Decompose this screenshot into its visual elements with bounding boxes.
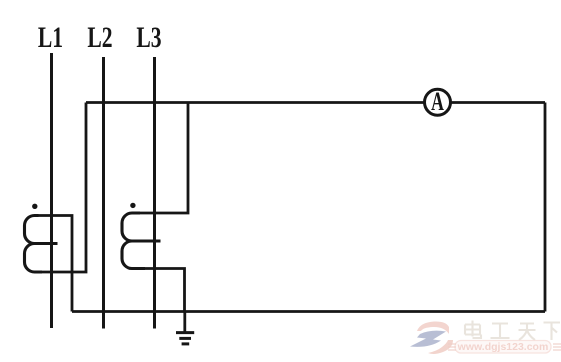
watermark char 下 <box>544 323 561 341</box>
watermark url box <box>455 341 551 354</box>
watermark logo slate Z <box>410 331 446 347</box>
ground bar 2 <box>179 337 191 340</box>
transformer T1 secondary coil (CT on L1) <box>25 216 58 273</box>
ground bar 1 <box>176 331 194 334</box>
wire L1 phase line <box>50 53 53 328</box>
ground stem <box>183 312 186 333</box>
svg-text:L1: L1 <box>38 21 63 54</box>
watermark char 天 <box>519 324 536 341</box>
wire L2 phase line <box>102 57 105 329</box>
watermark logo red swoosh top <box>417 321 449 334</box>
svg-text:L2: L2 <box>87 21 112 54</box>
wire CT1 bottom lead: cap right to x=86 then up to top bus <box>39 103 87 273</box>
wire CT2 bottom lead: cap right to x=184.5 then down to bottom bus <box>134 269 185 312</box>
ground bar 3 <box>182 342 190 345</box>
watermark hamburger right <box>553 344 561 350</box>
wire CT1 top lead: cap to x=72 then down to bottom bus <box>39 216 73 312</box>
wire L3 phase line <box>153 57 156 329</box>
ammeter A1 circle <box>425 89 451 115</box>
svg-text:www.dgjs123.com: www.dgjs123.com <box>457 341 549 353</box>
polarity dot CT2 <box>130 203 135 208</box>
wire CT2 top lead: cap right to x=188 then up to top bus <box>134 103 188 214</box>
watermark logo red swoosh bottom right <box>428 340 453 354</box>
polarity dot CT1 <box>32 204 37 209</box>
wire top bus from CT1 secondary to ammeter and right edge <box>86 101 545 104</box>
svg-text:A: A <box>431 87 444 116</box>
watermark hamburger left <box>448 344 456 350</box>
svg-text:L3: L3 <box>136 21 161 54</box>
wire bottom return bus <box>72 310 545 313</box>
transformer T2 secondary coil (CT on L3) <box>122 213 161 269</box>
watermark char 工 <box>491 324 510 339</box>
watermark char 电 <box>465 321 481 339</box>
wire right side down <box>544 103 547 312</box>
